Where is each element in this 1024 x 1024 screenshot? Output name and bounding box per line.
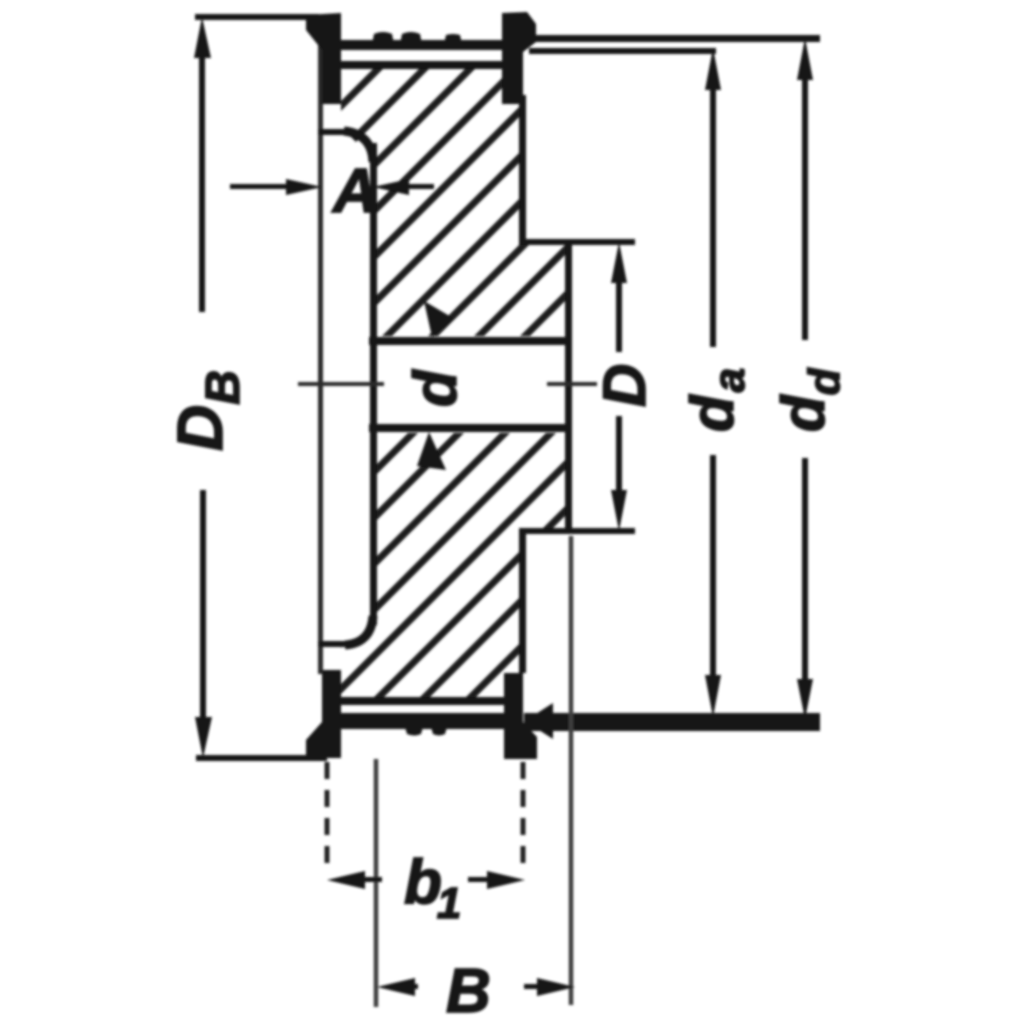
tooth bump top 3 [444, 34, 462, 44]
dimension B left arrow [377, 978, 415, 996]
tooth bump bottom 2 [431, 727, 447, 736]
svg-text:b1: b1 [404, 848, 461, 928]
D top arrow [611, 242, 627, 283]
fillet bottom [345, 616, 373, 645]
dimension line da [710, 85, 716, 347]
svg-text:da: da [679, 368, 754, 432]
hatched lower web/hub section [341, 433, 568, 701]
left flange top tip [306, 13, 341, 104]
fillet top [344, 131, 373, 162]
toothed rim bottom band [339, 713, 507, 729]
dd top arrow [797, 38, 813, 80]
D bottom arrow [611, 490, 627, 531]
b1 right tail [468, 877, 492, 882]
extension line B left [374, 759, 379, 1007]
dimension line dd [802, 80, 808, 340]
rim root line bottom [337, 697, 516, 705]
da bottom arrow [705, 675, 721, 717]
bore bottom line [369, 424, 571, 432]
dimension b1 left arrow [327, 871, 365, 889]
hub boss top face / D extension line [519, 239, 635, 245]
rim underside line top-left [318, 129, 347, 135]
DB top arrow [194, 17, 211, 58]
svg-text:dd: dd [770, 367, 849, 432]
hub boss right face [565, 240, 572, 532]
B left tail [408, 984, 418, 989]
extension line B right [569, 536, 574, 1005]
dimension line D [616, 280, 622, 352]
dd bottom arrow [797, 679, 813, 719]
dimension A left line [230, 184, 290, 189]
extension line top-left (DB) [195, 14, 319, 20]
tooth bump top 2 [400, 32, 422, 44]
B right tail [524, 984, 542, 989]
rim inner line bottom-left [318, 641, 350, 647]
rim root line top [340, 61, 520, 69]
b1 left tail [360, 877, 382, 882]
svg-text:D: D [591, 364, 658, 407]
svg-text:A: A [331, 157, 378, 226]
dimension B right arrow [537, 978, 575, 996]
hub boss bottom face / D extension line [519, 528, 635, 534]
svg-text:B: B [446, 957, 491, 1024]
left flange plate [318, 40, 323, 674]
tooth bump top 1 [372, 32, 394, 44]
centerline left [298, 382, 384, 386]
extension line b1 left (dashed) [325, 762, 330, 874]
hatched upper rim/web/hub section [341, 66, 568, 336]
extension line b1 right (dashed) [521, 762, 526, 872]
extension line bottom right (da+dd) [524, 713, 820, 731]
dimension A right tail [404, 184, 434, 189]
extension line top right da [529, 48, 716, 54]
da top arrow [705, 48, 721, 90]
dimension d bottom arrow [417, 432, 446, 470]
bore top line [369, 337, 571, 345]
dimension line DB [199, 50, 205, 312]
web left face line [370, 143, 377, 625]
right flange bottom tip [504, 673, 537, 759]
arrow on bottom extension at boss line [525, 703, 553, 739]
toothed rim top band [338, 40, 504, 50]
svg-text:d: d [402, 369, 469, 407]
dimension d top arrow [424, 301, 453, 337]
DB bottom arrow [195, 717, 212, 758]
rim right face lower [519, 530, 526, 673]
extension line bottom-left (DB) [196, 755, 327, 761]
centerline right [547, 382, 597, 386]
tooth bump bottom 1 [405, 727, 423, 736]
right flange top tip [502, 12, 536, 104]
extension line top right dd [523, 35, 820, 42]
dimension b1 right arrow [487, 871, 525, 889]
rim right face upper [519, 95, 526, 244]
dimension A left arrow [286, 179, 322, 195]
svg-text:DB: DB [164, 370, 250, 451]
dimension A right arrow [373, 179, 409, 195]
left flange bottom tip [306, 670, 341, 758]
